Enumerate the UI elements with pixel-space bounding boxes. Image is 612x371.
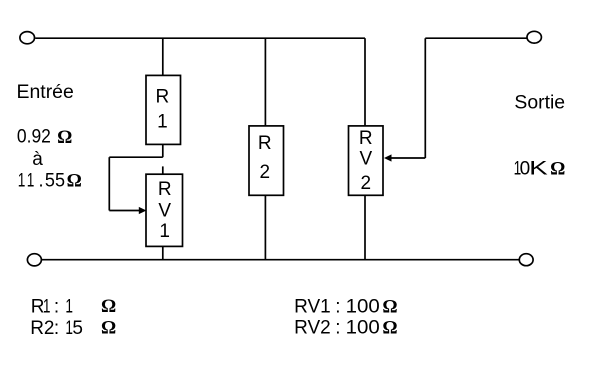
wire RV1 wiper horizontal [109, 210, 139, 212]
wire RV2 bottom lead [364, 195, 366, 259]
wire output horizontal [425, 37, 526, 39]
svg-text:RV1: RV1 [294, 297, 331, 318]
potentiometer RV2 [349, 126, 384, 195]
svg-text:5: 5 [72, 318, 83, 339]
arrowhead RV2 wiper [384, 154, 392, 161]
wire output vertical [424, 38, 426, 158]
resistor R2 [249, 126, 284, 195]
svg-text:K: K [529, 159, 548, 180]
svg-text:1: 1 [43, 297, 51, 318]
svg-text:0.92: 0.92 [17, 126, 51, 147]
wire R2 bottom lead [264, 195, 266, 259]
svg-text:Ω: Ω [101, 317, 116, 338]
wire RV1 bottom lead [162, 246, 164, 259]
wire top rail [35, 37, 365, 39]
arrowhead RV1 wiper [139, 207, 147, 214]
svg-text:R: R [156, 87, 170, 108]
svg-text:Sortie: Sortie [514, 92, 565, 113]
svg-text:100: 100 [346, 318, 380, 339]
wire R1 bottom lead [162, 144, 164, 157]
wire R1 top lead [162, 38, 164, 75]
wire RV1 top stub [162, 166, 164, 174]
svg-text:.: . [38, 171, 43, 192]
svg-text:RV2: RV2 [294, 318, 331, 339]
svg-text:Ω: Ω [382, 318, 397, 339]
svg-text:Ω: Ω [382, 296, 397, 317]
svg-text:1: 1 [157, 111, 168, 132]
svg-text::: : [54, 297, 59, 318]
terminal input bottom [27, 254, 41, 266]
svg-text:R2: R2 [30, 318, 54, 339]
svg-text:R: R [359, 128, 373, 149]
svg-text:1: 1 [159, 221, 170, 242]
svg-text:R: R [158, 179, 172, 200]
wire R2 top lead [264, 38, 266, 126]
svg-text:Ω: Ω [550, 159, 565, 180]
terminal input top [20, 32, 35, 44]
wire RV2 top lead [364, 38, 366, 126]
svg-text:R: R [258, 133, 272, 154]
terminal output top [527, 31, 541, 43]
wire left vertical [108, 157, 110, 210]
potentiometer RV1 [146, 174, 183, 246]
svg-text:1: 1 [65, 297, 73, 318]
svg-text:1: 1 [18, 171, 26, 192]
svg-text:2: 2 [361, 173, 372, 194]
svg-text:1: 1 [27, 171, 35, 192]
svg-text:100: 100 [346, 297, 380, 318]
svg-text::: : [335, 297, 340, 318]
svg-text::: : [54, 318, 59, 339]
wire bottom rail [42, 259, 519, 261]
wire RV2 wiper horizontal [391, 157, 426, 159]
terminal output bottom [519, 254, 533, 266]
resistor R1 [146, 75, 181, 144]
svg-text:55: 55 [45, 171, 65, 192]
svg-text:Ω: Ω [101, 296, 116, 317]
wire junction to left [109, 156, 163, 158]
svg-text:V: V [158, 201, 171, 222]
svg-text:Ω: Ω [67, 171, 82, 192]
svg-text:2: 2 [260, 162, 271, 183]
svg-text:à: à [32, 149, 43, 170]
svg-text:V: V [359, 149, 372, 170]
svg-text:Ω: Ω [57, 127, 72, 148]
svg-text::: : [335, 318, 340, 339]
svg-text:Entrée: Entrée [17, 82, 74, 103]
